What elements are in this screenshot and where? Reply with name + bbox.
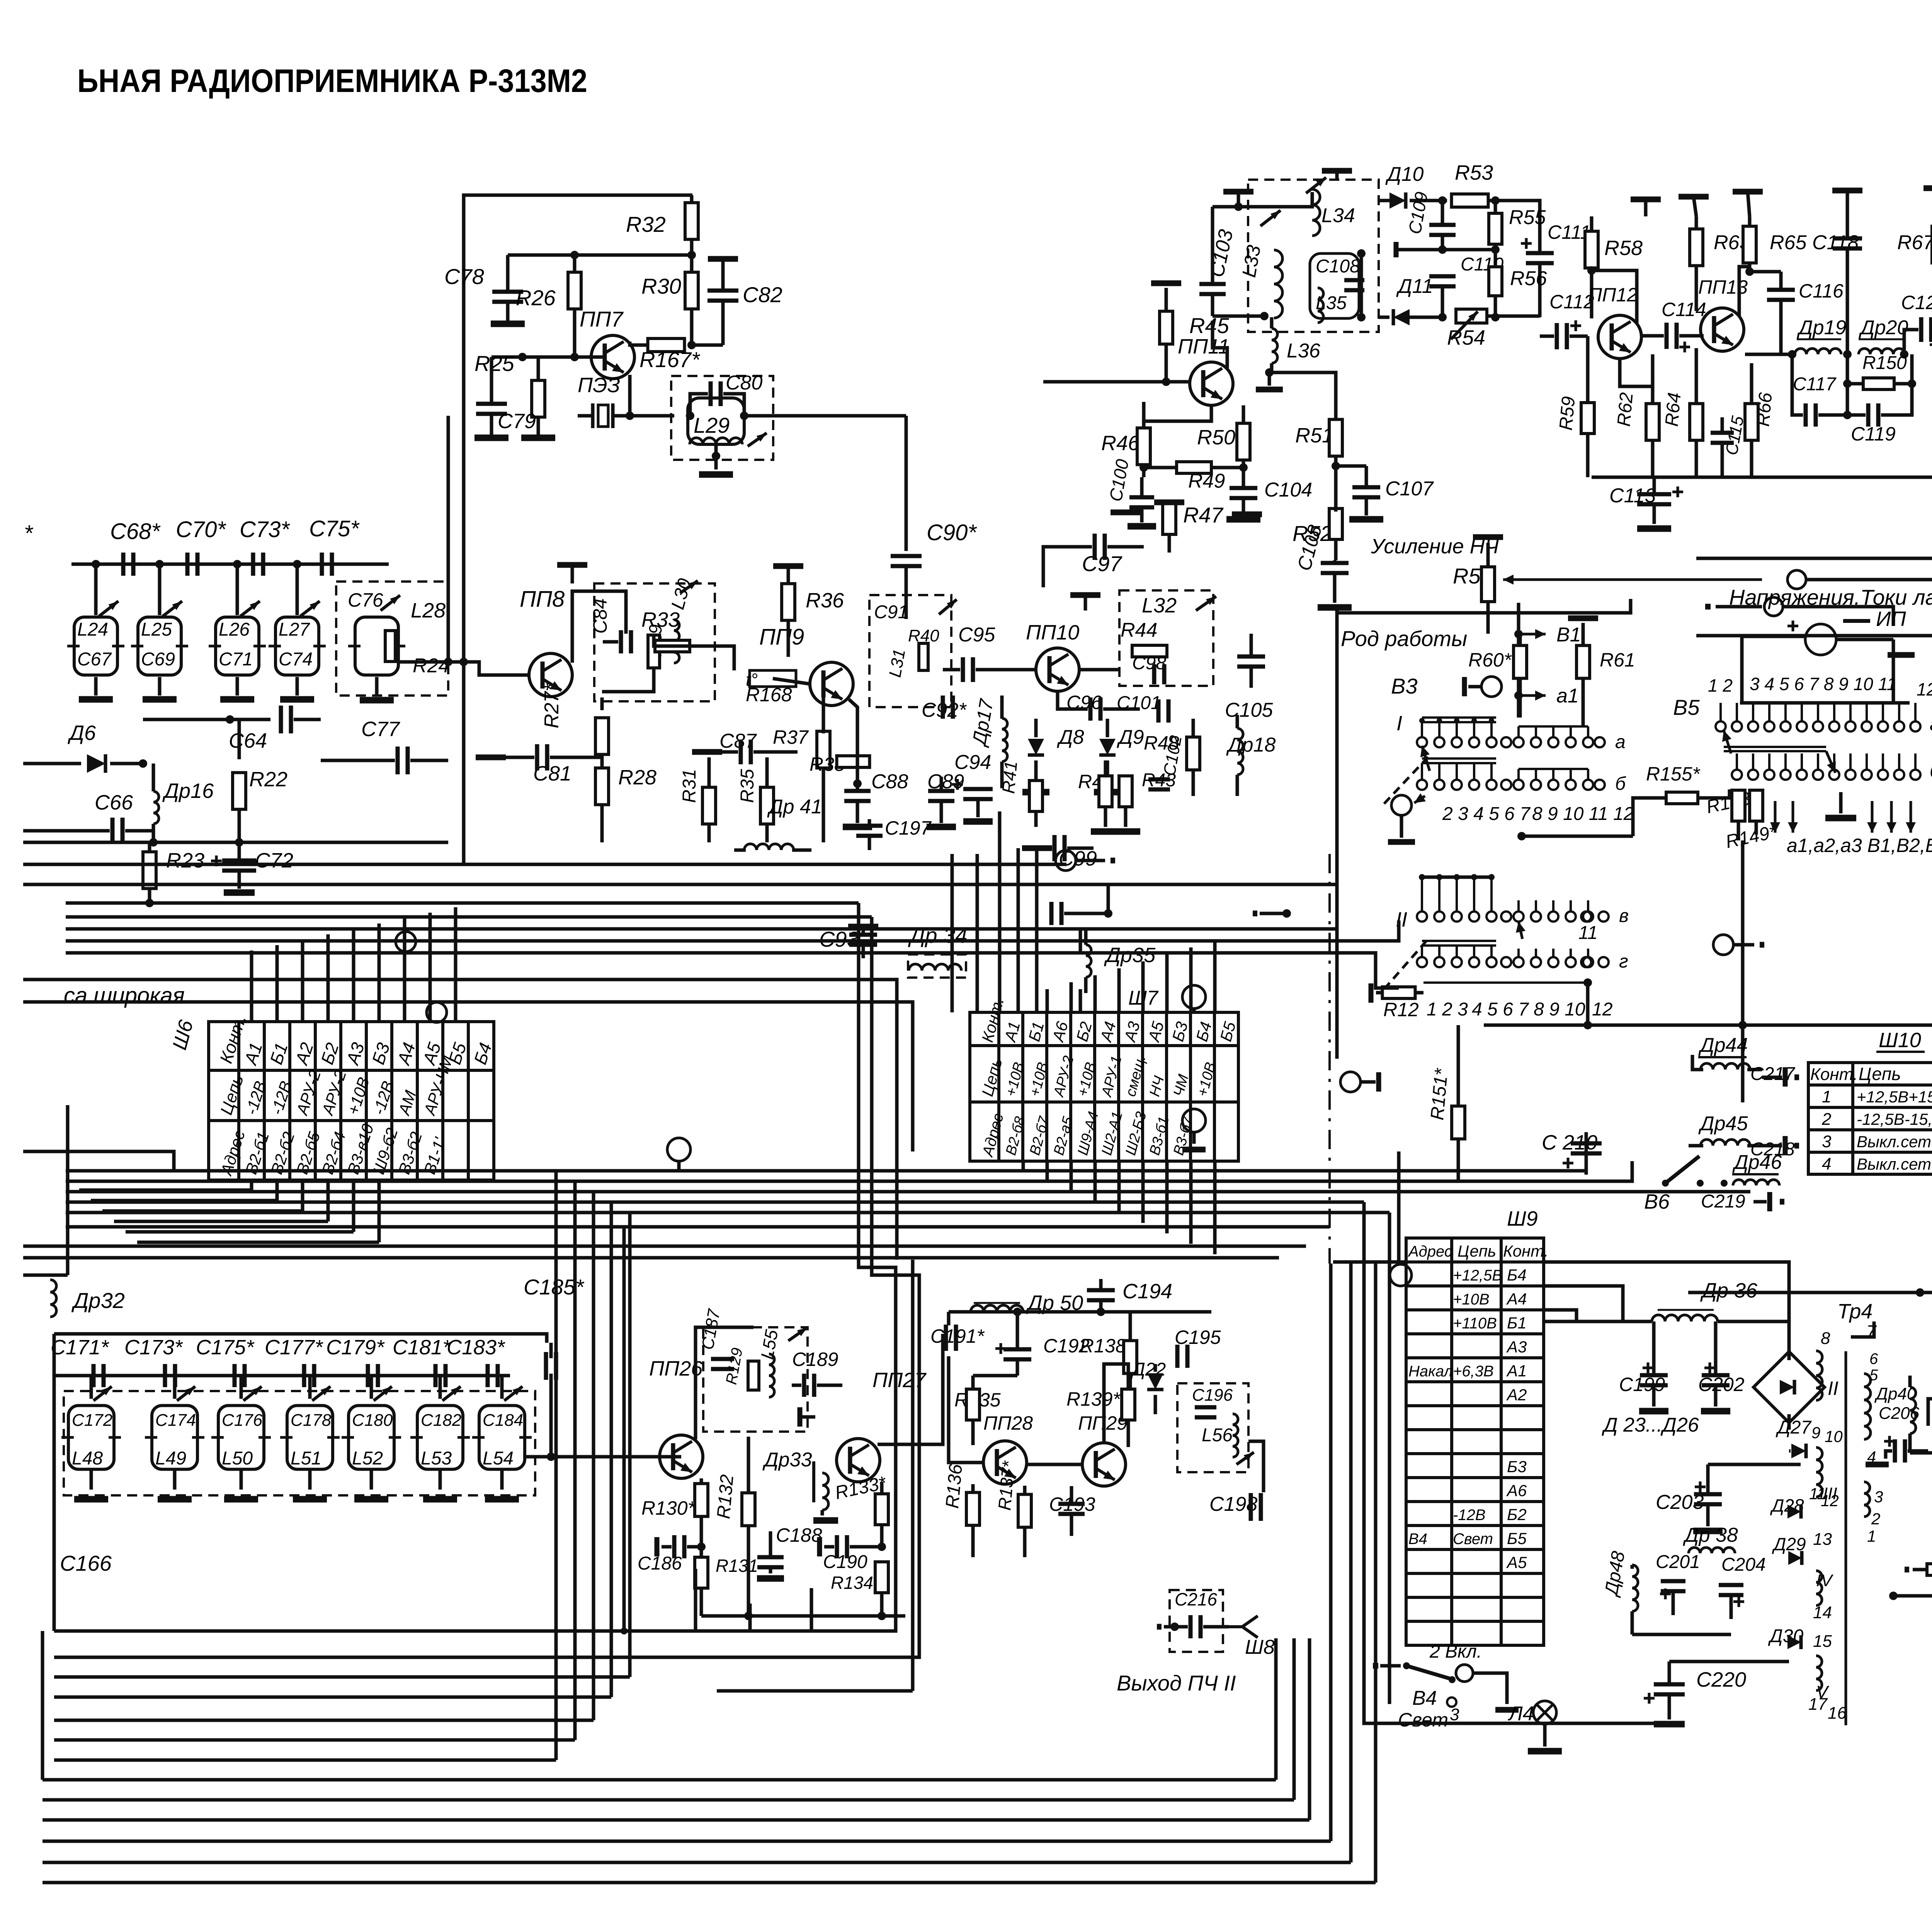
ground C107 [1349,516,1383,523]
dashed box C187 [703,1327,808,1432]
transistor PP12 [1598,315,1641,359]
switch V4 [1373,1663,1378,1669]
capacitor C73 [253,553,263,576]
wire vertical x2256 [54,917,919,1657]
svg-text:С91: С91 [874,602,908,622]
bank IIg tail [1501,957,1511,967]
svg-text:С70*: С70* [176,517,226,542]
wire vertical x2796 dr35 [1079,927,1082,954]
wire bus upper rail A [23,863,1066,866]
svg-text:Ш9: Ш9 [1507,1207,1538,1230]
tbar above R57 [1473,534,1503,540]
capacitor C80 [690,394,708,416]
ground L28 [360,697,394,704]
svg-text:R139*: R139* [1066,1388,1121,1410]
wire bus y2435 [66,920,1399,941]
svg-text:1: 1 [1822,1087,1831,1106]
tbar mid2 [1232,512,1262,517]
wire c99 r [1064,912,1108,915]
capacitor C79 [490,357,493,402]
svg-text:С90*: С90* [927,520,977,545]
svg-text:Др 36: Др 36 [1700,1279,1758,1302]
capacitor C75 [322,553,332,576]
svg-text:Напряжения.Токи ламп.: Напряжения.Токи ламп. [1729,585,1932,609]
svg-text:L36: L36 [1287,340,1320,362]
svg-text:Цепь: Цепь [1859,1064,1901,1084]
svg-text:Др 34: Др 34 [908,923,967,947]
svg-text:C120: C120 [1901,292,1932,313]
svg-text:L29: L29 [694,413,730,437]
tuned circuit C180/L52 [349,1406,394,1469]
svg-text:Др33: Др33 [762,1449,812,1471]
transistor PP9 [810,662,853,706]
svg-text:*: * [24,521,34,546]
svg-text:R32: R32 [626,212,666,236]
svg-text:а1: а1 [1556,685,1579,707]
svg-text:А1: А1 [1506,1362,1527,1380]
svg-text:C182: C182 [421,1411,461,1430]
tbar PP10 [1070,592,1100,598]
svg-text:1: 1 [1867,1527,1876,1545]
wire row2 mid rail [54,1374,510,1378]
wire sh9 top to bridge [1544,1262,1789,1352]
capacitor C173 [165,1364,175,1387]
svg-text:R65: R65 [1770,231,1807,254]
svg-text:1 2 3: 1 2 3 [1427,999,1468,1020]
svg-text:С175*: С175* [196,1336,255,1359]
tuned circuit L26/C71 [216,617,259,675]
conn w1 [396,932,416,952]
transistor PP11 [1190,362,1233,405]
resistor R32 [685,203,698,240]
wire meter [1836,638,1893,641]
wire conn2 [1783,607,1893,626]
wire sh6 left drops [622,1227,626,1631]
svg-text:Д8: Д8 [1057,726,1084,748]
dashed box L56 [1177,1383,1248,1472]
table Sh10 [1808,1063,1932,1174]
tbar conn2 [1705,604,1711,610]
capacitor C171 [94,1364,104,1387]
wire top node rail [508,253,692,257]
ground L50 [224,1496,258,1503]
wire d28 rail [1708,1463,1801,1466]
wire L52 gnd [370,1469,373,1490]
svg-text:L24: L24 [77,619,108,640]
svg-text:С114: С114 [1662,299,1706,320]
tuned circuit C176/L50 [218,1406,264,1469]
svg-text:+12,5В+15,5В: +12,5В+15,5В [1857,1088,1932,1106]
svg-text:C107: C107 [1385,478,1434,500]
svg-text:Др35: Др35 [1104,944,1156,967]
tbar row4 [1832,188,1862,194]
svg-text:L50: L50 [222,1448,253,1469]
wire L50 gnd [240,1469,243,1490]
ground L49 [158,1496,192,1503]
trimmer L25 [160,599,184,619]
ground L27 [280,696,314,703]
svg-text:R131: R131 [716,1556,758,1576]
bank V5 stems [1719,703,1722,721]
svg-text:L27: L27 [279,619,310,640]
wire bank I right rail [1519,725,1588,728]
wire rod frame top [1337,599,1631,613]
wire vertical x2222 [54,903,896,1631]
svg-text:Др44: Др44 [1698,1034,1748,1056]
svg-text:С104: С104 [1264,479,1312,501]
svg-text:R130*: R130* [641,1497,696,1519]
svg-text:Ш10: Ш10 [1879,1029,1921,1052]
svg-text:R46: R46 [1101,432,1140,455]
svg-text:R67: R67 [1897,231,1932,254]
wire rod frame left [1335,611,1339,1059]
svg-text:12: 12 [1821,1492,1839,1510]
capacitor C177 [304,1364,314,1387]
svg-text:R28: R28 [618,766,656,789]
wire filter drop L27 [296,564,299,615]
wire c118 col [1846,354,1849,415]
wire pp12 coll [1592,270,1637,323]
table Sh7 [970,1012,1238,1161]
svg-text:L28: L28 [411,599,446,622]
svg-text:+12,5В: +12,5В [1453,1267,1502,1284]
tbar discr top [1322,168,1352,174]
svg-text:R62: R62 [1614,392,1637,427]
svg-text:R41: R41 [998,760,1021,794]
conn2 [1764,597,1783,616]
svg-text:C184: C184 [483,1411,523,1430]
svg-text:С97: С97 [1082,551,1122,576]
wire row2 bus [54,1334,547,1343]
svg-text:С101: С101 [1117,693,1161,713]
ground L52 [354,1496,388,1503]
wire pp12 emit [1620,359,1653,386]
capacitor C181 [435,1364,446,1387]
wire pp30 in [1928,1399,1932,1426]
svg-text:R26: R26 [516,286,556,310]
arrow v5 1 [1724,730,1731,753]
svg-text:Тр4: Тр4 [1837,1300,1872,1323]
svg-text:R43: R43 [1142,770,1176,791]
wire drop L53 [439,1376,442,1399]
svg-text:С177*: С177* [265,1336,323,1359]
svg-text:б: б [1615,774,1626,794]
tuned circuit L27/C74 [276,617,319,675]
capacitor C179 [368,1364,378,1387]
wire mid rail [23,841,448,844]
svg-text:+110В: +110В [1453,1315,1497,1332]
svg-text:R44: R44 [1121,619,1157,641]
ground R42 [1091,828,1120,835]
conn left mid [1340,1072,1361,1092]
svg-text:Конт.: Конт. [1503,1242,1548,1260]
dashed box L29 [671,376,773,460]
wire filter out to PP8 [398,660,479,664]
wire sh9 b1 [1544,1310,1577,1321]
conn w7 [1713,935,1733,955]
svg-text:1 2: 1 2 [1708,675,1733,696]
tuned circuit C178/L51 [287,1406,333,1469]
svg-text:Др 38: Др 38 [1683,1524,1738,1546]
trimmer L32 [1194,594,1218,613]
trimmer L52 [371,1384,394,1403]
svg-text:са широкая: са широкая [64,983,185,1008]
ground L48 [74,1496,108,1503]
wire bottom bundle [54,1629,811,1633]
dashed box C84 L30 [594,583,715,701]
svg-text:13: 13 [1813,1530,1832,1549]
wire R167 to PP7 collector [630,342,648,345]
wire c192 link [973,1374,1017,1378]
wire tr4 bottom rail [1893,1594,1932,1598]
wire c220 rail [1669,1660,1789,1663]
trimmer L48 [91,1384,114,1403]
wire PP11 base [1043,380,1190,384]
wire L51 gnd [308,1469,312,1490]
svg-text:6: 6 [1869,1350,1878,1367]
wire L29 node [686,412,694,420]
svg-text:С179*: С179* [326,1336,385,1359]
ground L29 [714,444,718,469]
svg-text:в: в [1619,906,1629,926]
svg-text:С95: С95 [958,624,995,646]
wire left frame [23,1151,174,1171]
tbar L36 [1268,372,1271,386]
ground C89 [927,824,956,830]
wire filter drop L25 [158,564,162,615]
wire to PP26 [526,1455,681,1459]
svg-text:15: 15 [1813,1632,1832,1651]
wire c108 right [1360,253,1363,317]
svg-text:В4: В4 [1412,1687,1437,1709]
svg-text:14: 14 [1813,1603,1832,1622]
svg-text:16: 16 [1828,1704,1847,1723]
wire L24 gnd [94,677,98,696]
transistor PP10 [1036,648,1079,691]
wire box outline top-left [464,195,692,864]
svg-text:+6,3В: +6,3В [1453,1363,1494,1380]
ground L53 [423,1496,457,1503]
svg-text:2 Вкл.: 2 Вкл. [1429,1641,1482,1662]
svg-text:С94: С94 [954,751,991,774]
wire C84 cluster down [602,668,654,692]
wire plate II boundary dashed [1328,854,1331,1264]
wire R30 bottom to R167 [690,309,694,345]
svg-text:ПП12: ПП12 [1588,284,1638,306]
svg-text:12: 12 [1917,679,1932,699]
svg-text:R22: R22 [249,768,287,791]
svg-text:С108: С108 [1316,256,1360,277]
bank II stems g [1421,946,1423,957]
inductor L29 [688,398,744,444]
wire L56 out [1248,1441,1264,1492]
svg-text:Б2: Б2 [1507,1505,1527,1524]
wire v4 col [1388,1213,1391,1704]
svg-text:C82: C82 [743,282,782,307]
svg-text:Цепь: Цепь [1458,1242,1496,1260]
svg-text:R55: R55 [1509,206,1546,229]
wire drop L54 [500,1376,504,1399]
svg-text:Др46: Др46 [1732,1151,1782,1173]
svg-text:Б4: Б4 [1507,1266,1527,1284]
svg-text:3 4 5 6 7 8 9 10 11: 3 4 5 6 7 8 9 10 11 [1750,674,1896,694]
svg-text:С195: С195 [1175,1327,1221,1348]
svg-text:R136: R136 [942,1463,966,1509]
wire sh9 a4 [1544,1286,1623,1321]
wire pp27 to row2 bus [878,1334,943,1444]
svg-text:Выкл.сети: Выкл.сети [1857,1133,1932,1151]
wire r148 down [1737,821,1740,840]
svg-text:L51: L51 [291,1448,321,1469]
capacitor C183 [488,1364,498,1387]
svg-text:В3: В3 [1391,674,1418,698]
svg-text:C84: C84 [589,598,611,634]
wire to c220 [1364,1202,1669,1723]
ground L4 [1528,1748,1562,1755]
trimmer C187 [786,1325,809,1344]
svg-text:ПП7: ПП7 [580,307,624,331]
svg-text:С220: С220 [1696,1668,1746,1691]
svg-text:C116: C116 [1799,280,1844,302]
ground L26 [220,696,254,703]
svg-text:В4: В4 [1408,1531,1427,1548]
tuned circuit C172/L48 [68,1406,114,1469]
arrow a1 [1514,691,1523,700]
capacitor C82 [708,256,738,262]
wire drop L48 [90,1376,93,1399]
svg-text:C67: C67 [77,649,112,670]
wire vertical x2464 [951,854,954,1012]
resistor R30 [690,272,694,274]
ground V5 [1839,792,1843,813]
ground L51 [293,1496,327,1503]
svg-text:C71: C71 [219,649,253,670]
svg-text:R60*: R60* [1468,649,1512,671]
wire c103 top [1213,192,1312,207]
dashed actuator II [1384,939,1428,989]
wire L54 gnd [500,1469,504,1490]
wire dr48 bottom [1632,1633,1731,1636]
wire pp26 coll [696,1327,753,1439]
wire long to right [1806,578,1932,582]
resistor R167* [648,338,685,352]
svg-text:А4: А4 [1506,1290,1527,1308]
wire filter drop L26 [236,564,239,615]
meter IP [1787,621,1798,631]
svg-text:R59: R59 [1556,396,1579,431]
wire pp29 coll [1104,1364,1128,1443]
conn bank I [1391,795,1412,815]
wire L49 gnd [173,1469,177,1490]
svg-text:R138: R138 [1080,1335,1126,1357]
conn w6 [1390,1264,1412,1286]
wire PP8 collector up [572,591,626,663]
wire R32 to node [690,239,694,328]
svg-text:3: 3 [1822,1132,1832,1151]
arrow act II [1519,922,1522,939]
svg-text:R132: R132 [713,1474,738,1520]
switch lever V4 [1406,1666,1451,1679]
wire vertical x2635 [1017,848,1020,1012]
ground L24 [79,696,113,703]
wire riser to C90 line [447,416,450,662]
svg-text:C176: C176 [222,1411,263,1430]
svg-text:Род работы: Род работы [1341,626,1467,651]
conn w5 [667,1138,690,1161]
svg-text:Выкл.сети: Выкл.сети [1857,1155,1932,1173]
wire pp13 emit rail [1745,353,1792,356]
wire common rail y1235 [1592,476,1932,479]
tbar v4 [1495,1707,1519,1713]
wire drop L52 [370,1376,373,1399]
svg-text:-12,5В-15,5В: -12,5В-15,5В [1857,1110,1932,1128]
arrow v5 2 [1826,751,1835,773]
svg-text:Б3: Б3 [1507,1458,1527,1476]
svg-text:2: 2 [1871,1510,1880,1528]
resistor R26 [573,255,577,272]
svg-text:R35: R35 [737,769,758,803]
wire pp11 coll [1213,321,1227,368]
svg-text:Свет: Свет [1398,1709,1448,1731]
wire left edge risers [41,1631,44,1780]
svg-text:I: I [1396,712,1402,735]
transistor PP29 [1082,1443,1126,1486]
wire L48 gnd [90,1469,93,1490]
svg-text:C197: C197 [885,817,932,839]
svg-text:11: 11 [1578,923,1598,943]
wire y2653 [1484,1024,1932,1027]
svg-text:R167*: R167* [639,347,701,372]
svg-text:С217: С217 [1750,1064,1796,1084]
svg-text:Д 23...Д26: Д 23...Д26 [1602,1414,1699,1436]
resistor R25 [537,357,540,381]
bank I bars [1422,716,1496,719]
wire V4 to lamp [1473,1673,1507,1704]
tuned circuit L28/R24 [355,617,398,675]
svg-text:а: а [1930,714,1932,735]
svg-text:Б5: Б5 [1507,1529,1527,1548]
wire drop L49 [173,1376,177,1399]
ground C199 [1639,1408,1668,1415]
svg-text:R150: R150 [1862,353,1907,373]
svg-text:L56: L56 [1202,1425,1233,1446]
wire ps top rail [1688,1291,1932,1294]
svg-text:Др 41: Др 41 [767,796,822,818]
svg-text:C174: C174 [155,1411,196,1430]
tbar c216 [1157,1624,1162,1630]
wire bus y2337 [66,901,859,905]
tbar row5 [1923,185,1932,191]
conn w4 [1182,1109,1206,1132]
wire c103 bottom [1213,315,1264,318]
wire R51 R52 link [1336,464,1366,468]
svg-text:R30: R30 [641,274,681,298]
dashed actuator I [1384,757,1428,804]
bank I bars b [1422,757,1496,760]
capacitor C90* [891,556,922,566]
svg-text:Д9: Д9 [1117,726,1144,748]
wire R32 branch [690,195,694,203]
ground R43 [1111,828,1140,835]
svg-text:C204: C204 [1721,1554,1766,1575]
svg-text:Др20: Др20 [1859,316,1908,339]
wire bus upper rail B [23,883,1337,886]
svg-text:С166: С166 [60,1551,112,1575]
trimmer L54 [502,1384,524,1403]
svg-text:г: г [1619,951,1628,972]
svg-text:А2: А2 [1506,1386,1527,1404]
svg-text:C172: C172 [72,1411,112,1430]
